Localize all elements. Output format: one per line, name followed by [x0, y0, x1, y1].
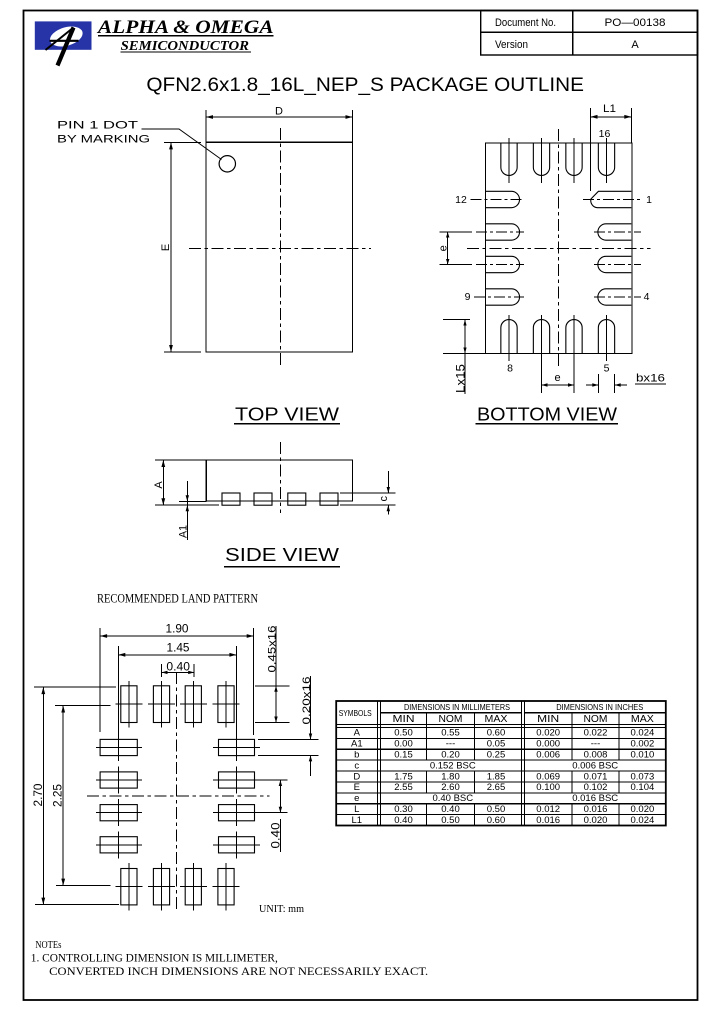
right pin row 4 (pin 4)	[598, 289, 631, 305]
svg-text:CONVERTED INCH DIMENSIONS ARE: CONVERTED INCH DIMENSIONS ARE NOT NECESS…	[49, 966, 428, 978]
top pin column 1 (pin 16)	[501, 143, 517, 175]
svg-text:QFN2.6x1.8_16L_NEP_S PACKAGE: QFN2.6x1.8_16L_NEP_S PACKAGE OUTLINE	[146, 74, 584, 96]
svg-text:0.152 BSC: 0.152 BSC	[430, 760, 476, 771]
svg-text:5: 5	[604, 363, 610, 375]
svg-text:0.45x16: 0.45x16	[266, 626, 278, 673]
svg-text:L1: L1	[603, 103, 616, 115]
svg-text:PIN 1 DOT: PIN 1 DOT	[57, 120, 138, 132]
svg-text:0.60: 0.60	[487, 815, 506, 826]
right pin row 1 (pin 1, chamfered)	[591, 191, 632, 207]
svg-text:SIDE VIEW: SIDE VIEW	[225, 545, 340, 565]
dimension c (lead thickness)	[340, 492, 396, 494]
svg-text:1. CONTROLLING DIMENSION IS MI: 1. CONTROLLING DIMENSION IS MILLIMETER,	[31, 953, 278, 965]
land pad top column 1	[121, 686, 137, 723]
svg-text:9: 9	[465, 291, 471, 303]
land pad left row 4	[100, 837, 137, 853]
svg-text:0.022: 0.022	[584, 728, 608, 739]
dimension A1	[179, 500, 206, 502]
document info table	[481, 11, 698, 56]
right pin row 3 (pin 3)	[598, 256, 631, 272]
svg-text:0.006: 0.006	[536, 750, 560, 761]
svg-text:1.90: 1.90	[166, 623, 190, 636]
land pad top column 4	[218, 686, 234, 723]
svg-text:DIMENSIONS IN INCHES: DIMENSIONS IN INCHES	[556, 702, 643, 712]
dimension 0.40 (pad pitch, top)	[161, 664, 163, 677]
bottom pin column 3 (pin 6)	[566, 320, 582, 354]
svg-text:1.80: 1.80	[441, 771, 460, 782]
svg-text:0.00: 0.00	[394, 739, 413, 750]
bottom view vertical centerline	[558, 129, 560, 367]
svg-text:0.016: 0.016	[536, 815, 560, 826]
svg-text:0.020: 0.020	[536, 728, 560, 739]
land pad left row 3	[100, 805, 137, 821]
svg-text:Document No.: Document No.	[495, 17, 556, 29]
left pin row 2 (pin 11)	[486, 224, 520, 240]
svg-text:L: L	[354, 804, 359, 815]
svg-text:0.012: 0.012	[536, 804, 560, 815]
svg-text:0.008: 0.008	[584, 750, 608, 761]
svg-text:8: 8	[507, 363, 513, 375]
svg-text:1.85: 1.85	[487, 771, 506, 782]
svg-text:12: 12	[455, 194, 467, 206]
svg-text:BOTTOM VIEW: BOTTOM VIEW	[477, 405, 618, 425]
svg-text:2.25: 2.25	[52, 783, 65, 807]
svg-text:b: b	[354, 750, 359, 761]
svg-text:A: A	[354, 728, 361, 739]
svg-text:E: E	[354, 782, 360, 793]
svg-text:0.55: 0.55	[441, 728, 460, 739]
svg-text:0.024: 0.024	[631, 728, 655, 739]
dimension 0.20x16 (pad width)	[258, 739, 318, 741]
dimension E	[164, 141, 201, 143]
land pad left row 2	[100, 772, 137, 788]
bottom pin column 2 (pin 7)	[533, 320, 549, 354]
land pad left row 1	[100, 739, 137, 755]
svg-text:2.70: 2.70	[32, 783, 45, 807]
land pad right row 3	[219, 805, 255, 821]
svg-text:0.05: 0.05	[487, 739, 506, 750]
svg-text:0.000: 0.000	[536, 739, 560, 750]
svg-text:0.102: 0.102	[584, 782, 608, 793]
land pad bottom column 1	[121, 869, 137, 905]
svg-text:ALPHA & OMEGA: ALPHA & OMEGA	[97, 18, 274, 38]
svg-text:A1: A1	[178, 525, 190, 538]
land pattern vertical centerline	[176, 672, 178, 913]
top pin column 3 (pin 14)	[566, 143, 582, 175]
svg-text:0.40: 0.40	[166, 661, 190, 673]
svg-text:0.020: 0.020	[584, 815, 608, 826]
land pattern horizontal centerline	[87, 795, 270, 797]
dimension A	[155, 459, 206, 461]
land pad right row 2	[219, 772, 255, 788]
land pad bottom column 4	[218, 869, 234, 905]
right pin row 2 (pin 2)	[598, 224, 631, 240]
svg-text:D: D	[275, 106, 283, 118]
side view centerline	[279, 442, 281, 513]
svg-text:4: 4	[644, 291, 650, 303]
land pad bottom column 3	[185, 869, 201, 905]
top view body outline	[206, 142, 353, 352]
svg-text:0.100: 0.100	[536, 782, 560, 793]
svg-text:0.60: 0.60	[487, 728, 506, 739]
svg-text:NOM: NOM	[439, 713, 463, 725]
svg-text:1.45: 1.45	[167, 641, 191, 654]
svg-text:0.104: 0.104	[631, 782, 655, 793]
svg-text:0.016 BSC: 0.016 BSC	[572, 793, 618, 804]
svg-text:e: e	[438, 245, 450, 251]
svg-text:0.006 BSC: 0.006 BSC	[572, 760, 618, 771]
side view body outline	[206, 460, 352, 501]
svg-text:0.010: 0.010	[631, 750, 655, 761]
svg-text:E: E	[160, 244, 172, 251]
land pad top column 3	[185, 686, 201, 723]
svg-text:A: A	[153, 481, 165, 489]
dimension 1.90	[99, 628, 101, 732]
svg-text:0.024: 0.024	[631, 815, 655, 826]
dimension 1.45	[117, 646, 119, 745]
svg-text:TOP VIEW: TOP VIEW	[235, 405, 340, 425]
svg-text:MIN: MIN	[393, 713, 415, 725]
svg-text:2.55: 2.55	[394, 782, 413, 793]
left pin row 3 (pin 10)	[486, 256, 520, 272]
top view vertical centerline	[279, 128, 281, 366]
svg-text:0.50: 0.50	[487, 804, 506, 815]
land pad top column 2	[153, 686, 169, 723]
svg-text:0.016: 0.016	[584, 804, 608, 815]
svg-text:c: c	[378, 496, 390, 502]
svg-text:DIMENSIONS IN MILLIMETERS: DIMENSIONS IN MILLIMETERS	[404, 702, 510, 712]
dimension 2.25	[55, 705, 110, 707]
svg-text:UNIT: mm: UNIT: mm	[259, 904, 304, 915]
pin 1 leader line	[142, 129, 222, 160]
svg-text:c: c	[354, 760, 359, 771]
left pin row 4 (pin 9)	[486, 289, 520, 305]
svg-text:16: 16	[599, 128, 611, 140]
svg-text:SYMBOLS: SYMBOLS	[339, 708, 372, 718]
pin row centerlines	[471, 199, 525, 201]
pin 1 dot	[219, 156, 235, 172]
logo blue box	[35, 21, 92, 49]
svg-text:Lx15: Lx15	[455, 364, 467, 393]
bottom pin column 1 (pin 8)	[501, 320, 517, 354]
logo A glyph	[46, 28, 74, 51]
top pin column 2 (pin 15)	[533, 143, 549, 175]
svg-text:0.069: 0.069	[536, 771, 560, 782]
dimensions table	[336, 701, 666, 826]
svg-text:1: 1	[646, 194, 652, 206]
svg-text:PO—00138: PO—00138	[605, 17, 666, 29]
logo ellipse	[48, 23, 85, 50]
land pad bottom column 2	[153, 869, 169, 905]
svg-text:A: A	[631, 39, 639, 51]
land pad right row 4	[219, 837, 255, 853]
svg-text:0.50: 0.50	[441, 815, 460, 826]
svg-text:bx16: bx16	[636, 373, 665, 385]
left pin row 1 (pin 12)	[486, 191, 520, 207]
dimension bx16 (pin width)	[597, 374, 599, 393]
svg-text:0.40 BSC: 0.40 BSC	[432, 793, 473, 804]
svg-text:2.60: 2.60	[441, 782, 460, 793]
svg-text:0.002: 0.002	[631, 739, 655, 750]
dimension Lx15 (bottom pin length)	[443, 319, 470, 321]
bottom view body outline	[486, 143, 633, 354]
svg-text:NOM: NOM	[584, 713, 608, 725]
svg-text:1.75: 1.75	[394, 771, 413, 782]
svg-text:MAX: MAX	[485, 713, 508, 725]
dimension D	[205, 110, 207, 142]
bottom view horizontal centerline	[467, 247, 651, 249]
dimension 0.45x16 (top pad length)	[255, 685, 290, 687]
svg-text:MIN: MIN	[537, 713, 559, 725]
svg-text:0.073: 0.073	[631, 771, 655, 782]
side view pins	[222, 493, 240, 505]
svg-text:0.15: 0.15	[394, 750, 413, 761]
svg-text:D: D	[353, 771, 360, 782]
dimension L1	[590, 108, 592, 191]
svg-text:L1: L1	[352, 815, 363, 826]
svg-text:---: ---	[446, 739, 456, 750]
svg-text:0.20x16: 0.20x16	[301, 677, 313, 725]
svg-text:0.020: 0.020	[631, 804, 655, 815]
svg-text:0.20: 0.20	[441, 750, 460, 761]
dimension e (left, pin pitch)	[440, 231, 472, 233]
svg-text:e: e	[354, 793, 359, 804]
svg-text:0.40: 0.40	[441, 804, 460, 815]
svg-text:RECOMMENDED LAND PATTERN: RECOMMENDED LAND PATTERN	[97, 592, 258, 606]
svg-text:---: ---	[591, 739, 601, 750]
top pin column 4 (pin 13)	[598, 143, 614, 175]
svg-text:NOTEs: NOTEs	[35, 940, 61, 951]
land pad right row 1	[219, 739, 255, 755]
svg-text:0.50: 0.50	[394, 728, 413, 739]
dimension e (bottom, pin pitch)	[542, 384, 575, 386]
top view horizontal centerline	[189, 247, 371, 249]
dimension 0.40 (pad pitch, right)	[260, 779, 288, 781]
svg-text:2.65: 2.65	[487, 782, 506, 793]
svg-text:BY MARKING: BY MARKING	[57, 134, 150, 146]
svg-text:Version: Version	[495, 39, 528, 51]
dimension 2.70	[34, 686, 116, 688]
svg-text:e: e	[554, 372, 560, 384]
svg-text:0.071: 0.071	[584, 771, 608, 782]
svg-text:0.40: 0.40	[394, 815, 413, 826]
bottom pin column 4 (pin 5)	[598, 320, 614, 354]
svg-text:0.30: 0.30	[394, 804, 413, 815]
svg-text:0.40: 0.40	[271, 823, 283, 849]
svg-text:A1: A1	[351, 739, 363, 750]
svg-text:0.25: 0.25	[487, 750, 506, 761]
svg-text:MAX: MAX	[631, 713, 654, 725]
